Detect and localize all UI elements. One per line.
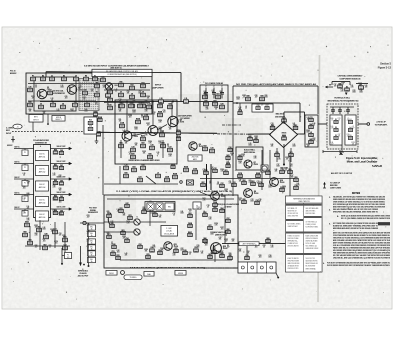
wire test column (88, 223, 90, 267)
capacitor C49 (183, 249, 187, 255)
svg-text:R99: R99 (107, 232, 110, 234)
svg-text:2.2K: 2.2K (145, 111, 148, 113)
svg-text:.001: .001 (129, 154, 132, 156)
svg-text:C12: C12 (129, 152, 132, 154)
svg-text:CR32: CR32 (34, 225, 38, 227)
resistor R54 (266, 169, 270, 175)
svg-text:1K: 1K (153, 114, 155, 116)
svg-text:R25: R25 (169, 104, 172, 106)
wire test feed horizontal (80, 222, 104, 224)
resistor R52 (242, 180, 246, 185)
svg-text:22K: 22K (247, 253, 250, 255)
svg-text:L9: L9 (352, 126, 354, 128)
svg-text:C13: C13 (209, 217, 212, 219)
svg-text:L63: L63 (151, 211, 154, 213)
resistor RQ5A (176, 129, 181, 135)
resistor R7 (73, 102, 78, 107)
capacitor C21 (138, 177, 143, 182)
svg-text:R8: R8 (47, 87, 49, 89)
resistor R24B (158, 111, 163, 117)
resistor R9 (95, 83, 100, 88)
relay K2 box (156, 203, 163, 210)
svg-text:.01: .01 (173, 215, 175, 217)
svg-text:22K: 22K (271, 146, 274, 148)
wire agc output (222, 243, 290, 245)
svg-text:1K: 1K (338, 120, 340, 122)
svg-text:NOTE SYMBOL SYMBOL: NOTE SYMBOL SYMBOL (288, 224, 301, 226)
transistor Q9 (244, 189, 259, 198)
svg-text:680: 680 (239, 200, 242, 202)
resistor R78 (116, 255, 120, 260)
svg-text:R85: R85 (107, 211, 110, 213)
svg-text:680: 680 (59, 190, 62, 192)
ground stud node (276, 273, 279, 278)
svg-text:L38: L38 (313, 123, 316, 125)
capacitor C2A (101, 76, 106, 82)
svg-text:R61: R61 (23, 211, 26, 213)
capacitor C52 (138, 244, 142, 249)
svg-text:470: 470 (261, 105, 264, 107)
svg-text:2.2K: 2.2K (57, 111, 60, 113)
svg-text:1K: 1K (313, 125, 315, 127)
svg-text:100K: 100K (212, 249, 215, 251)
gray tone patch calibrator (26, 73, 152, 114)
gray tone patch mid (178, 94, 232, 134)
table header bar 4 (286, 232, 322, 234)
capacitor C13 (129, 103, 134, 108)
svg-text:CR9: CR9 (263, 245, 266, 247)
svg-text:2.2K: 2.2K (151, 213, 154, 215)
capacitor C60 (59, 150, 63, 155)
capacitor C32 (213, 168, 217, 173)
ground symbol below mixer (283, 170, 286, 173)
test select box S6 (88, 257, 96, 263)
resistor R79 (146, 254, 150, 259)
svg-text:4.7K: 4.7K (53, 200, 56, 202)
terminal circle 13 (203, 239, 207, 243)
svg-text:.047: .047 (35, 247, 38, 249)
resistor R58B (256, 173, 261, 178)
svg-text:2N706: 2N706 (134, 136, 139, 138)
svg-text:CR60: CR60 (230, 153, 234, 155)
resistor R5 (93, 76, 98, 81)
svg-text:Figure 5-13: Figure 5-13 (378, 66, 392, 70)
svg-text:10K: 10K (359, 85, 362, 87)
knob label oval ZERO (106, 271, 117, 276)
svg-text:L76: L76 (125, 141, 128, 143)
svg-text:470: 470 (143, 209, 146, 211)
wire vertical feed left of amp (102, 125, 104, 195)
svg-text:L48: L48 (123, 130, 126, 132)
resistor R42 (238, 154, 242, 160)
svg-text:L18: L18 (239, 107, 242, 109)
svg-text:.01: .01 (23, 175, 25, 177)
svg-text:10K: 10K (338, 136, 341, 138)
svg-text:I1: I1 (136, 217, 137, 219)
svg-text:2.2K: 2.2K (87, 241, 90, 243)
svg-text:100K: 100K (26, 195, 29, 197)
multivibrator inner box (34, 77, 76, 111)
capacitor C7 (119, 92, 124, 97)
svg-text:C55: C55 (173, 253, 176, 255)
resistor R2 (41, 76, 46, 81)
svg-text:10K: 10K (119, 121, 122, 123)
svg-text:CR38: CR38 (210, 232, 214, 234)
svg-text:2.2K: 2.2K (204, 93, 207, 95)
symbol stack left of lineup (323, 182, 326, 188)
svg-text:C47: C47 (23, 198, 26, 200)
resistor R37 (213, 101, 218, 106)
svg-text:C99: C99 (95, 102, 98, 104)
filter disc D2 (334, 127, 338, 132)
crystal Y2 (359, 84, 364, 89)
svg-text:680: 680 (197, 247, 200, 249)
svg-text:100K: 100K (248, 145, 251, 147)
svg-text:CR90: CR90 (148, 141, 152, 143)
wire filter output (358, 123, 370, 126)
svg-text:100K: 100K (42, 229, 45, 231)
svg-text:C20: C20 (163, 110, 166, 112)
test select box S4 (88, 245, 96, 251)
svg-text:10K: 10K (43, 113, 46, 115)
svg-text:C16: C16 (151, 145, 154, 147)
svg-text:C78: C78 (207, 205, 210, 207)
svg-text:L31: L31 (87, 246, 90, 248)
table header bar 2 (286, 219, 303, 221)
label push in adj (78, 270, 89, 278)
scattered value annotations (23, 82, 368, 259)
svg-text:CR46: CR46 (50, 229, 54, 231)
arrow af row 5 (69, 208, 72, 211)
svg-text:USED THRU 5X: USED THRU 5X (298, 201, 309, 203)
label crystal oven assembly (338, 75, 364, 81)
svg-text:L10: L10 (87, 223, 90, 225)
svg-text:C87: C87 (239, 249, 242, 251)
resistor R57 (201, 182, 205, 187)
svg-text:680: 680 (107, 105, 110, 107)
svg-text:SEL: SEL (90, 226, 93, 228)
wire mixer verticals (277, 148, 291, 162)
crystal Y3 box (193, 202, 201, 209)
svg-text:C17: C17 (169, 147, 172, 149)
svg-text:10K: 10K (352, 144, 355, 146)
capacitor C12B (96, 131, 101, 136)
svg-text:C14: C14 (119, 99, 122, 101)
wire input amp verticals (121, 102, 172, 159)
svg-text:CR22: CR22 (238, 198, 242, 200)
capacitor C55A (142, 208, 147, 214)
svg-text:100K: 100K (306, 132, 309, 134)
svg-text:500 KC: 500 KC (14, 161, 20, 163)
svg-text:Section 5: Section 5 (380, 62, 391, 66)
svg-text:4.7K: 4.7K (153, 247, 156, 249)
choke LT3 dark box (187, 180, 194, 185)
svg-text:L11: L11 (59, 200, 61, 202)
svg-text:CR52: CR52 (224, 239, 228, 241)
svg-text:2.75 MC IF: 2.75 MC IF (376, 122, 386, 124)
wire into matching box (300, 133, 305, 135)
svg-text:C24: C24 (87, 239, 90, 241)
svg-text:R53: R53 (252, 181, 255, 183)
svg-text:680: 680 (283, 188, 286, 190)
resistor R33 (132, 167, 137, 172)
svg-text:.047: .047 (227, 247, 230, 249)
svg-text:CR44: CR44 (220, 169, 224, 171)
resistor R32 (203, 146, 208, 151)
svg-text:L2: L2 (347, 118, 349, 120)
resistor R20 (88, 120, 93, 125)
svg-text:470: 470 (32, 98, 35, 100)
svg-text:R94: R94 (247, 251, 250, 253)
wire dash dot ground return (203, 267, 262, 269)
filter input capacitors (330, 107, 354, 114)
svg-text:RESISTORS SYMBOL: RESISTORS SYMBOL (306, 213, 316, 215)
svg-text:L84: L84 (181, 211, 184, 213)
svg-text:R41: R41 (153, 245, 156, 247)
svg-text:CR39: CR39 (241, 154, 245, 156)
svg-text:CR71: CR71 (202, 198, 206, 200)
svg-text:Q9: Q9 (254, 191, 256, 193)
svg-text:C37: C37 (221, 183, 224, 185)
svg-text:R76: R76 (197, 245, 200, 247)
knob label box VERNIER (175, 271, 186, 276)
svg-text:ARE PANEL AND ASSY ORDER NOTE: ARE PANEL AND ASSY ORDER NOTE SEE K3 AND… (333, 227, 379, 230)
svg-text:CR97: CR97 (158, 141, 162, 143)
svg-text:100K: 100K (210, 234, 213, 236)
svg-text:4.7K: 4.7K (71, 111, 74, 113)
resistor R45 (309, 138, 313, 144)
af channel module Z4 (36, 197, 49, 207)
resistor R62 (53, 180, 57, 185)
reference designation table (286, 196, 323, 272)
wire diamond top loop (284, 112, 305, 134)
note 5 text (323, 262, 391, 268)
wire af row 1 (14, 149, 71, 151)
svg-text:Figure 5-13. Input Amplifier,: Figure 5-13. Input Amplifier, (346, 156, 378, 160)
svg-text:C60: C60 (60, 150, 63, 152)
svg-text:RF/SQUELCH AMPLIFIER: RF/SQUELCH AMPLIFIER (217, 203, 240, 206)
capacitor C36 (255, 200, 259, 205)
resistor R35B (173, 174, 178, 179)
svg-text:CR71: CR71 (31, 96, 35, 98)
svg-text:33K: 33K (123, 215, 126, 217)
svg-text:2.2K: 2.2K (53, 175, 56, 177)
svg-text:680: 680 (107, 234, 110, 236)
svg-text:R82: R82 (154, 212, 157, 214)
wire af row 5 (14, 209, 71, 211)
svg-text:R60: R60 (54, 149, 57, 151)
svg-text:.047: .047 (189, 211, 192, 213)
resistor R40 (248, 135, 252, 141)
svg-text:R21: R21 (133, 100, 136, 102)
svg-text:.047: .047 (51, 231, 54, 233)
svg-text:.047: .047 (23, 213, 26, 215)
svg-text:C74: C74 (271, 123, 274, 125)
shaft circle (121, 271, 125, 275)
filter coil L4 (348, 126, 352, 132)
svg-text:4.7K: 4.7K (278, 159, 281, 161)
svg-text:1K: 1K (225, 191, 227, 193)
capacitor C22 (204, 86, 208, 99)
svg-text:R83: R83 (189, 213, 192, 215)
svg-text:CR64: CR64 (146, 96, 150, 98)
capacitor C48 (150, 246, 154, 252)
svg-text:2.2K: 2.2K (229, 183, 232, 185)
svg-text:R52: R52 (313, 138, 316, 140)
svg-text:C19: C19 (211, 148, 214, 150)
svg-text:R31: R31 (217, 94, 220, 96)
svg-text:C28: C28 (145, 101, 148, 103)
svg-text:R115 SYMBOL Q14: R115 SYMBOL Q14 (306, 246, 318, 248)
capacitor C16 (150, 145, 155, 150)
svg-text:100K: 100K (352, 92, 355, 94)
table rows left column (288, 207, 301, 270)
wire dash dot mixer left (222, 124, 241, 126)
svg-text:C47: C47 (212, 90, 215, 92)
svg-text:P/O COARSE TUNE A3: P/O COARSE TUNE A3 (205, 82, 223, 85)
resistor R59 (294, 177, 298, 182)
svg-text:R37: R37 (214, 101, 217, 103)
dimension scale line (323, 150, 357, 155)
svg-text:CR9 UUF UNIT R115: CR9 UUF UNIT R115 (288, 213, 299, 215)
svg-text:CR10: CR10 (285, 157, 289, 159)
TP test point box (84, 117, 97, 134)
resistor R70 (107, 213, 111, 218)
capacitor C5 (85, 102, 90, 107)
svg-text:C3: C3 (40, 104, 42, 106)
resistor R85 (266, 238, 270, 243)
gray tone patch mixer left (225, 118, 263, 152)
svg-text:680: 680 (27, 183, 30, 185)
capacitor C33 (232, 182, 236, 187)
filter disc D1 (334, 119, 338, 124)
svg-text:SPECIFIED SEE VALUES TERMINAL: SPECIFIED SEE VALUES TERMINAL USED WIRE … (333, 210, 378, 213)
svg-text:2.2K: 2.2K (203, 200, 206, 202)
resistor R83C (188, 232, 193, 237)
svg-text:R32: R32 (204, 146, 207, 148)
svg-text:33K: 33K (219, 239, 222, 241)
svg-text:S1: S1 (346, 86, 348, 88)
svg-text:L43: L43 (115, 89, 118, 91)
svg-text:CR68: CR68 (214, 107, 218, 109)
svg-text:C31: C31 (310, 117, 313, 119)
svg-text:C35: C35 (281, 169, 284, 171)
svg-text:BFO: BFO (34, 117, 38, 119)
resistor R50 (204, 170, 208, 175)
connector P2 box (25, 222, 30, 227)
svg-text:22K: 22K (227, 163, 230, 165)
svg-text:10K: 10K (35, 227, 38, 229)
svg-text:L70: L70 (57, 109, 60, 111)
resistor R5B (28, 102, 33, 107)
capacitor C28 (254, 138, 258, 143)
svg-text:500 KC: 500 KC (14, 192, 20, 194)
resistor R83 (188, 213, 192, 218)
svg-text:100K: 100K (132, 102, 135, 104)
svg-text:THE L21 NOT STD: THE L21 NOT STD (306, 258, 316, 260)
svg-text:22K: 22K (125, 255, 128, 257)
wire dash dot bus to mixer (217, 133, 248, 135)
svg-text:.047: .047 (47, 89, 50, 91)
svg-text:CR74: CR74 (54, 241, 58, 243)
svg-text:R1: R1 (32, 76, 34, 78)
inductor L1 (156, 173, 161, 178)
svg-text:.047: .047 (225, 241, 228, 243)
svg-text:RF GAIN RING GAIN CONTROL CA: RF GAIN RING GAIN CONTROL CAL ADJ (106, 70, 138, 73)
svg-text:1K: 1K (243, 97, 245, 99)
svg-text:R62: R62 (54, 180, 57, 182)
resistor R60 (53, 149, 57, 154)
note 4 text (333, 232, 391, 260)
svg-text:R72: R72 (120, 208, 123, 210)
capacitor C31 (309, 117, 313, 122)
svg-text:CR23: CR23 (351, 142, 355, 144)
svg-text:CR19: CR19 (142, 151, 146, 153)
svg-text:L25: L25 (249, 143, 252, 145)
svg-text:P1: P1 (24, 167, 26, 169)
svg-text:AMPLIFIER A4: AMPLIFIER A4 (244, 151, 255, 154)
svg-text:L67: L67 (43, 239, 46, 241)
svg-text:1K: 1K (220, 93, 222, 95)
resistor R36 (204, 101, 209, 106)
svg-text:.001: .001 (211, 169, 214, 171)
svg-text:.01: .01 (263, 247, 265, 249)
svg-text:C53: C53 (59, 233, 62, 235)
wire af row 4 (14, 195, 71, 197)
svg-text:USED USED PER: USED USED PER (288, 216, 298, 218)
svg-text:455 KC: 455 KC (7, 145, 13, 147)
svg-text:22K: 22K (91, 91, 94, 93)
svg-text:C17: C17 (277, 164, 280, 166)
svg-text:4.7K: 4.7K (159, 143, 162, 145)
wire main mixer bus (96, 132, 217, 133)
svg-text:R38: R38 (247, 96, 250, 98)
svg-text:C85: C85 (65, 96, 68, 98)
svg-text:22K: 22K (123, 238, 126, 240)
svg-text:100K: 100K (60, 87, 63, 89)
input jack J2 (22, 150, 28, 156)
svg-text:OHMS ORDER ORDER: OHMS ORDER ORDER (306, 248, 319, 250)
resistor R43 (226, 154, 230, 160)
resistor R34 (141, 164, 146, 170)
input amplifier assembly box (115, 100, 177, 164)
filter coil L3 (348, 119, 352, 124)
capacitor C10 (108, 105, 113, 110)
ground symbol left margin (11, 136, 14, 142)
arrow on mode line (87, 127, 94, 132)
svg-text:.001: .001 (290, 166, 293, 168)
wire af row 2 (14, 164, 71, 166)
svg-text:C36: C36 (259, 199, 262, 201)
capacitor C53 (212, 249, 216, 254)
svg-text:AN/GRC: AN/GRC (10, 72, 17, 75)
svg-text:C57: C57 (139, 91, 142, 93)
svg-text:.001: .001 (59, 202, 62, 204)
svg-text:SEL: SEL (90, 240, 93, 242)
gray tone patch osc left (104, 196, 136, 258)
svg-text:L1: L1 (157, 173, 159, 175)
svg-text:UNLESS ALL ARE Q14 CHASSIS MIL: UNLESS ALL ARE Q14 CHASSIS MIL Q14 PARTS… (333, 257, 391, 260)
resistor R87 (208, 254, 212, 259)
svg-text:C82: C82 (59, 175, 62, 177)
svg-text:500 KC: 500 KC (14, 207, 20, 209)
capacitor C57 (226, 218, 230, 223)
svg-text:L10: L10 (160, 98, 163, 100)
svg-text:CR35: CR35 (122, 236, 126, 238)
svg-text:CR82: CR82 (242, 95, 246, 97)
capacitor C30 (228, 147, 232, 152)
wire diamond bottom tail (283, 144, 285, 164)
